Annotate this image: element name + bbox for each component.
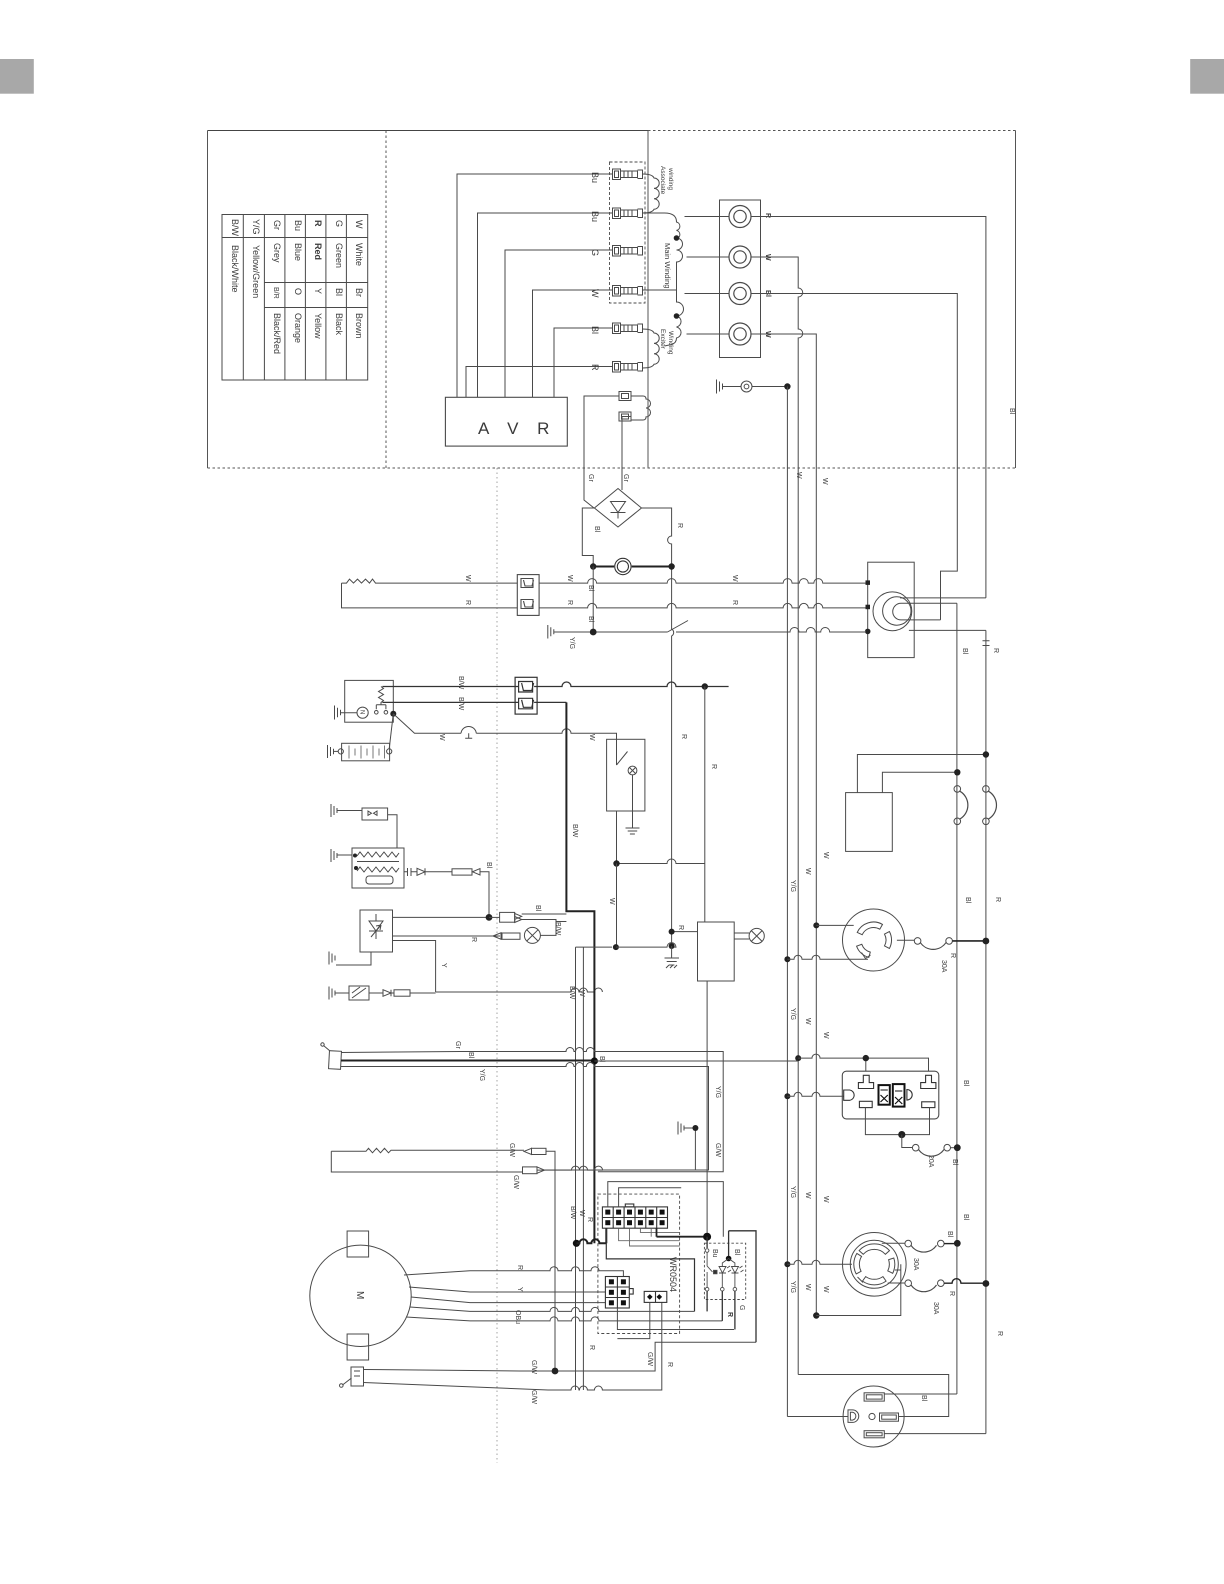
wire to relay bbox=[672, 931, 698, 933]
svg-text:30A: 30A bbox=[940, 960, 947, 973]
svg-text:Bl: Bl bbox=[593, 526, 600, 533]
page margin marks bbox=[0, 59, 34, 94]
pilot lamp L2 bbox=[734, 928, 764, 943]
svg-text:Winding: Winding bbox=[667, 331, 674, 355]
svg-text:Black: Black bbox=[334, 313, 344, 336]
wire YG to gfci bbox=[784, 1093, 790, 1099]
svg-text:R: R bbox=[677, 925, 684, 930]
dashed connector enclosure bbox=[598, 1194, 680, 1333]
svg-text:Gr: Gr bbox=[272, 220, 282, 230]
svg-text:Brown: Brown bbox=[354, 313, 364, 339]
connector 6pin bbox=[605, 1277, 633, 1309]
winding to block stubs bbox=[685, 217, 730, 335]
contact points bbox=[375, 705, 388, 714]
breaker 20A bbox=[902, 1135, 958, 1157]
receptacle RC3 bbox=[843, 1386, 904, 1447]
svg-text:Yellow/Green: Yellow/Green bbox=[251, 245, 261, 298]
breaker R bbox=[983, 786, 997, 825]
main winding bbox=[643, 213, 684, 346]
svg-text:Bu: Bu bbox=[590, 211, 600, 222]
svg-text:Bl: Bl bbox=[534, 905, 541, 912]
ground G3 bbox=[335, 706, 358, 720]
svg-text:B/W: B/W bbox=[568, 986, 575, 1000]
legend table bbox=[222, 215, 368, 381]
wire h992 to bundle bbox=[436, 988, 603, 992]
wire YG loop bbox=[341, 1063, 709, 1171]
svg-text:Gr: Gr bbox=[454, 1041, 461, 1049]
wire W2 to rc2 bbox=[813, 1312, 819, 1318]
svg-text:R: R bbox=[992, 648, 999, 653]
svg-text:G/W: G/W bbox=[512, 1175, 519, 1189]
wire W1 to rc3 bbox=[798, 1375, 949, 1417]
lamp L1 bbox=[628, 766, 637, 828]
breaker Bl bbox=[954, 786, 968, 825]
switch inside bbox=[705, 1249, 717, 1291]
svg-text:W: W bbox=[608, 898, 615, 905]
wire Bl long vertical bbox=[956, 603, 958, 1394]
gfci bottom wires bbox=[865, 1108, 929, 1135]
svg-text:winding: winding bbox=[667, 167, 674, 190]
breaker 30A rc1 bbox=[897, 938, 986, 950]
sender body bbox=[331, 1148, 602, 1172]
wire YG to rc3 bbox=[787, 1416, 848, 1418]
svg-text:G/W: G/W bbox=[508, 1143, 515, 1157]
svg-text:Y/G: Y/G bbox=[789, 880, 796, 892]
connector 12pin bbox=[602, 1204, 667, 1228]
svg-text:Bu: Bu bbox=[590, 172, 600, 183]
svg-text:Bl: Bl bbox=[467, 1052, 474, 1059]
breaker 30A top bbox=[882, 1240, 958, 1252]
receptacle RC2 bbox=[843, 1233, 907, 1297]
resistor R1 bbox=[379, 687, 384, 705]
terminal bolts dashed box bbox=[610, 162, 646, 303]
meter N bbox=[357, 707, 368, 718]
wire R long vertical bbox=[985, 630, 987, 1433]
module box dashed bbox=[704, 1243, 745, 1299]
wire R relay down bbox=[706, 981, 708, 1237]
svg-text:W: W bbox=[804, 868, 811, 875]
outlet GFCI bbox=[842, 1071, 939, 1119]
AVR U1 bbox=[445, 397, 567, 446]
svg-text:Y/G: Y/G bbox=[568, 637, 575, 649]
fuse ticks on R line bbox=[983, 641, 990, 646]
receptacle RC1 bbox=[843, 909, 905, 971]
bundle labels bbox=[569, 1206, 593, 1222]
wire W return down bbox=[616, 864, 618, 948]
oil lamp box bbox=[607, 739, 645, 811]
svg-text:Y/G: Y/G bbox=[478, 1069, 485, 1081]
svg-text:R: R bbox=[994, 897, 1001, 902]
svg-text:Y: Y bbox=[516, 1287, 523, 1292]
wire YG to rc2 bbox=[784, 1261, 790, 1267]
wire YG long vertical bbox=[786, 387, 788, 1417]
output terminal block bbox=[720, 200, 761, 358]
svg-text:B/W: B/W bbox=[457, 676, 464, 690]
svg-text:G: G bbox=[738, 1305, 745, 1310]
svg-text:O: O bbox=[293, 288, 303, 295]
svg-text:R: R bbox=[726, 1312, 733, 1317]
svg-text:R: R bbox=[731, 600, 738, 605]
module outputs bbox=[707, 1291, 735, 1330]
svg-text:R: R bbox=[676, 523, 683, 528]
svg-text:WR0504: WR0504 bbox=[668, 1257, 678, 1292]
vertical labels YG W W column bbox=[789, 852, 829, 1293]
svg-text:Bl: Bl bbox=[962, 1214, 969, 1221]
svg-text:Bl: Bl bbox=[485, 862, 492, 869]
wires 2pin down bbox=[617, 1302, 734, 1338]
svg-text:M: M bbox=[354, 1291, 365, 1299]
svg-text:Bl: Bl bbox=[733, 1249, 740, 1256]
thick BW to 12pin bbox=[573, 1240, 580, 1247]
node R top bbox=[702, 683, 708, 689]
block output labels bbox=[764, 213, 771, 338]
svg-text:G: G bbox=[590, 249, 600, 256]
12pin bottom routes bbox=[619, 1228, 680, 1246]
node YG top bbox=[784, 383, 790, 389]
svg-text:Bl: Bl bbox=[946, 1231, 953, 1238]
svg-text:B/W: B/W bbox=[230, 219, 240, 237]
svg-text:W: W bbox=[566, 575, 573, 582]
svg-text:W: W bbox=[821, 478, 828, 485]
wire oil1 GW bbox=[364, 1342, 757, 1371]
12pin top routes bbox=[608, 1182, 724, 1237]
connector WR0504 2pin bbox=[644, 1291, 667, 1302]
svg-text:Green: Green bbox=[334, 243, 344, 268]
wire Bl feed bbox=[751, 294, 957, 620]
svg-text:30A: 30A bbox=[932, 1302, 939, 1315]
ground G6 in loop bbox=[678, 1122, 695, 1171]
svg-text:R: R bbox=[590, 364, 600, 371]
node stop-switch bbox=[590, 629, 597, 636]
border frame bbox=[208, 130, 649, 132]
svg-text:Bl: Bl bbox=[590, 326, 600, 334]
svg-text:B/W: B/W bbox=[569, 1206, 576, 1220]
svg-text:W: W bbox=[804, 1192, 811, 1199]
wire R from rc3 bbox=[884, 1433, 986, 1435]
svg-text:Bl: Bl bbox=[598, 1056, 605, 1063]
svg-text:Blue: Blue bbox=[293, 243, 303, 261]
wire SCR out bbox=[393, 916, 490, 918]
svg-text:A V R: A V R bbox=[478, 419, 556, 438]
wire diamond left to cap bbox=[582, 508, 594, 567]
fuse F2 bbox=[489, 912, 566, 928]
svg-text:W: W bbox=[822, 1196, 829, 1203]
svg-text:Bl: Bl bbox=[587, 616, 594, 623]
engine stop switch S1 bbox=[668, 621, 689, 633]
svg-text:Bl: Bl bbox=[587, 585, 594, 592]
svg-text:B/W: B/W bbox=[571, 824, 578, 838]
svg-text:Black/White: Black/White bbox=[230, 245, 240, 293]
battery BT1 bbox=[328, 714, 394, 761]
ground G5 bbox=[665, 946, 680, 968]
fold crease bbox=[496, 468, 498, 1463]
bolt labels bbox=[590, 172, 600, 371]
test/reset buttons bbox=[879, 1084, 905, 1107]
diode row from heater bbox=[404, 868, 489, 917]
svg-text:Main Winding: Main Winding bbox=[663, 243, 672, 288]
node relay feed bbox=[657, 1228, 708, 1237]
svg-text:R: R bbox=[516, 1265, 523, 1270]
svg-text:Bl: Bl bbox=[962, 1080, 969, 1087]
svg-text:G: G bbox=[334, 220, 344, 227]
CT sensor pins bbox=[584, 392, 651, 509]
feeds bbox=[707, 1231, 756, 1343]
wire W1 long vertical bbox=[797, 471, 799, 1375]
svg-text:R: R bbox=[948, 1291, 955, 1296]
svg-text:Bl: Bl bbox=[334, 288, 344, 296]
svg-text:B/W: B/W bbox=[457, 697, 464, 711]
wire W1 feed bbox=[751, 257, 803, 471]
svg-text:Br: Br bbox=[354, 288, 364, 297]
panel input pins bbox=[866, 580, 871, 585]
wire R drop bbox=[704, 687, 706, 923]
svg-text:Y/G: Y/G bbox=[714, 1086, 721, 1098]
svg-text:R: R bbox=[710, 764, 717, 769]
ground G1 with bolt circle bbox=[717, 380, 788, 394]
wire W1 to gfci bbox=[795, 1055, 801, 1061]
wire 583 drop bbox=[582, 947, 584, 1390]
wire R feed bbox=[751, 217, 986, 598]
motor M bbox=[310, 1231, 411, 1360]
fuse on sender bottom bbox=[523, 1167, 545, 1174]
wire YG to rc1 bbox=[784, 956, 790, 962]
svg-text:Y/G: Y/G bbox=[789, 1008, 796, 1020]
svg-text:W: W bbox=[822, 1032, 829, 1039]
capacitor C1 bbox=[615, 558, 631, 574]
svg-text:G/W: G/W bbox=[714, 1143, 721, 1157]
svg-text:B/W: B/W bbox=[554, 922, 561, 936]
heater box bbox=[331, 848, 404, 888]
ignition box bbox=[345, 680, 394, 722]
svg-text:White: White bbox=[354, 243, 364, 266]
svg-text:W: W bbox=[822, 852, 829, 859]
svg-text:Y: Y bbox=[440, 963, 447, 968]
W return drop bbox=[576, 947, 613, 1390]
LED D2 bbox=[719, 1259, 735, 1291]
svg-text:R: R bbox=[996, 1331, 1003, 1336]
wire Bl from rc3 bbox=[884, 1393, 957, 1395]
lamp row bbox=[393, 922, 567, 944]
switch in box bbox=[617, 739, 628, 765]
svg-text:R: R bbox=[566, 600, 573, 605]
svg-text:Y/G: Y/G bbox=[789, 1186, 796, 1198]
wire BW1 bbox=[382, 682, 728, 687]
fuse on sender top bbox=[524, 1148, 555, 1371]
wire oil2 GW bbox=[364, 1302, 662, 1390]
svg-text:W: W bbox=[731, 575, 738, 582]
node ignition out bbox=[390, 711, 396, 717]
ground G4 bbox=[626, 828, 640, 834]
connector J3 bbox=[515, 677, 537, 714]
wire W2 feed bbox=[751, 334, 816, 471]
svg-text:G/W: G/W bbox=[646, 1352, 653, 1366]
svg-text:W: W bbox=[822, 1286, 829, 1293]
svg-text:Bl: Bl bbox=[920, 1395, 927, 1402]
svg-text:Y/G: Y/G bbox=[251, 219, 261, 235]
wire Bl plug thick bbox=[341, 1060, 594, 1062]
svg-text:Orange: Orange bbox=[293, 313, 303, 343]
svg-text:W: W bbox=[354, 220, 364, 229]
svg-text:Grey: Grey bbox=[272, 243, 282, 263]
exciter winding bbox=[643, 329, 660, 368]
connector J2 bbox=[517, 575, 539, 616]
svg-text:Bl: Bl bbox=[961, 648, 968, 655]
svg-text:W: W bbox=[804, 1284, 811, 1291]
charger box bbox=[846, 793, 893, 852]
wire Bl drop to switch bbox=[592, 567, 594, 633]
svg-text:R: R bbox=[949, 953, 956, 958]
wire W2 to rc1 bbox=[813, 922, 819, 928]
svg-text:G/W: G/W bbox=[530, 1360, 537, 1374]
svg-text:R: R bbox=[313, 220, 323, 227]
svg-text:W: W bbox=[588, 734, 595, 741]
wire W to panel row1 label bbox=[795, 408, 1015, 655]
svg-text:W: W bbox=[438, 734, 445, 741]
svg-text:W: W bbox=[464, 575, 471, 582]
wire charger left bbox=[857, 755, 986, 793]
svg-text:W: W bbox=[804, 1018, 811, 1025]
relay K1 bbox=[698, 922, 735, 981]
wire BW2 bbox=[382, 701, 566, 703]
svg-text:Black/Red: Black/Red bbox=[272, 313, 282, 354]
LED D3 bbox=[732, 1266, 744, 1291]
wire Gr loop bbox=[341, 1048, 723, 1172]
bolt terminals Bu Bu G W Bl R bbox=[613, 169, 643, 372]
svg-text:20A: 20A bbox=[927, 1155, 934, 1168]
svg-text:Red: Red bbox=[313, 243, 323, 260]
svg-text:Bu: Bu bbox=[293, 220, 303, 231]
svg-text:Y: Y bbox=[313, 288, 323, 294]
panel box bbox=[868, 562, 915, 657]
svg-text:R: R bbox=[470, 937, 477, 942]
svg-text:Gr: Gr bbox=[622, 474, 629, 482]
spark gap symbol bbox=[461, 726, 617, 739]
motor leads bbox=[404, 1267, 722, 1321]
svg-text:R: R bbox=[666, 1362, 673, 1367]
meter circles bbox=[873, 592, 986, 631]
associate winding coil bbox=[643, 174, 660, 213]
wire W engine bbox=[393, 714, 461, 734]
svg-text:30A: 30A bbox=[912, 1258, 919, 1271]
rectifier D1 diamond bbox=[594, 489, 641, 528]
svg-text:W: W bbox=[578, 1210, 585, 1217]
svg-text:Bu: Bu bbox=[711, 1249, 718, 1258]
svg-text:OBu: OBu bbox=[514, 1310, 521, 1324]
spark plug bbox=[321, 1043, 342, 1070]
svg-text:Yellow: Yellow bbox=[313, 313, 323, 339]
wire charger right bbox=[882, 772, 957, 792]
svg-text:W: W bbox=[578, 990, 585, 997]
fuse F1 with ground bbox=[331, 804, 397, 848]
svg-text:B/R: B/R bbox=[272, 287, 279, 299]
svg-text:W: W bbox=[795, 472, 802, 479]
svg-text:R: R bbox=[588, 1345, 595, 1350]
svg-text:Bl: Bl bbox=[964, 897, 971, 904]
svg-text:R: R bbox=[586, 1217, 593, 1222]
svg-text:G/W: G/W bbox=[530, 1390, 537, 1404]
svg-text:Associate: Associate bbox=[659, 166, 666, 195]
ground G2 bbox=[548, 625, 668, 639]
SCR grounds and Y wire bbox=[329, 941, 436, 1001]
svg-text:N: N bbox=[359, 710, 365, 714]
thick BW path bbox=[566, 702, 594, 1243]
svg-text:Bl: Bl bbox=[951, 1159, 958, 1166]
svg-text:R: R bbox=[680, 734, 687, 739]
wire W return h863 bbox=[617, 811, 705, 864]
svg-text:Bl: Bl bbox=[1008, 408, 1015, 415]
svg-text:W: W bbox=[590, 289, 600, 298]
svg-text:R: R bbox=[764, 213, 771, 218]
breaker 30A bottom bbox=[888, 1279, 986, 1292]
svg-text:Y/G: Y/G bbox=[789, 1281, 796, 1293]
wire diamond right down bbox=[642, 508, 674, 943]
SCR box bbox=[360, 910, 393, 952]
svg-text:Gr: Gr bbox=[587, 474, 594, 482]
svg-text:R: R bbox=[464, 600, 471, 605]
wire W2 long vertical bbox=[815, 471, 817, 1316]
svg-text:Exciter: Exciter bbox=[659, 329, 666, 350]
wire col1 bottom loop bbox=[606, 1228, 694, 1311]
wire AVR nest bbox=[457, 174, 612, 397]
